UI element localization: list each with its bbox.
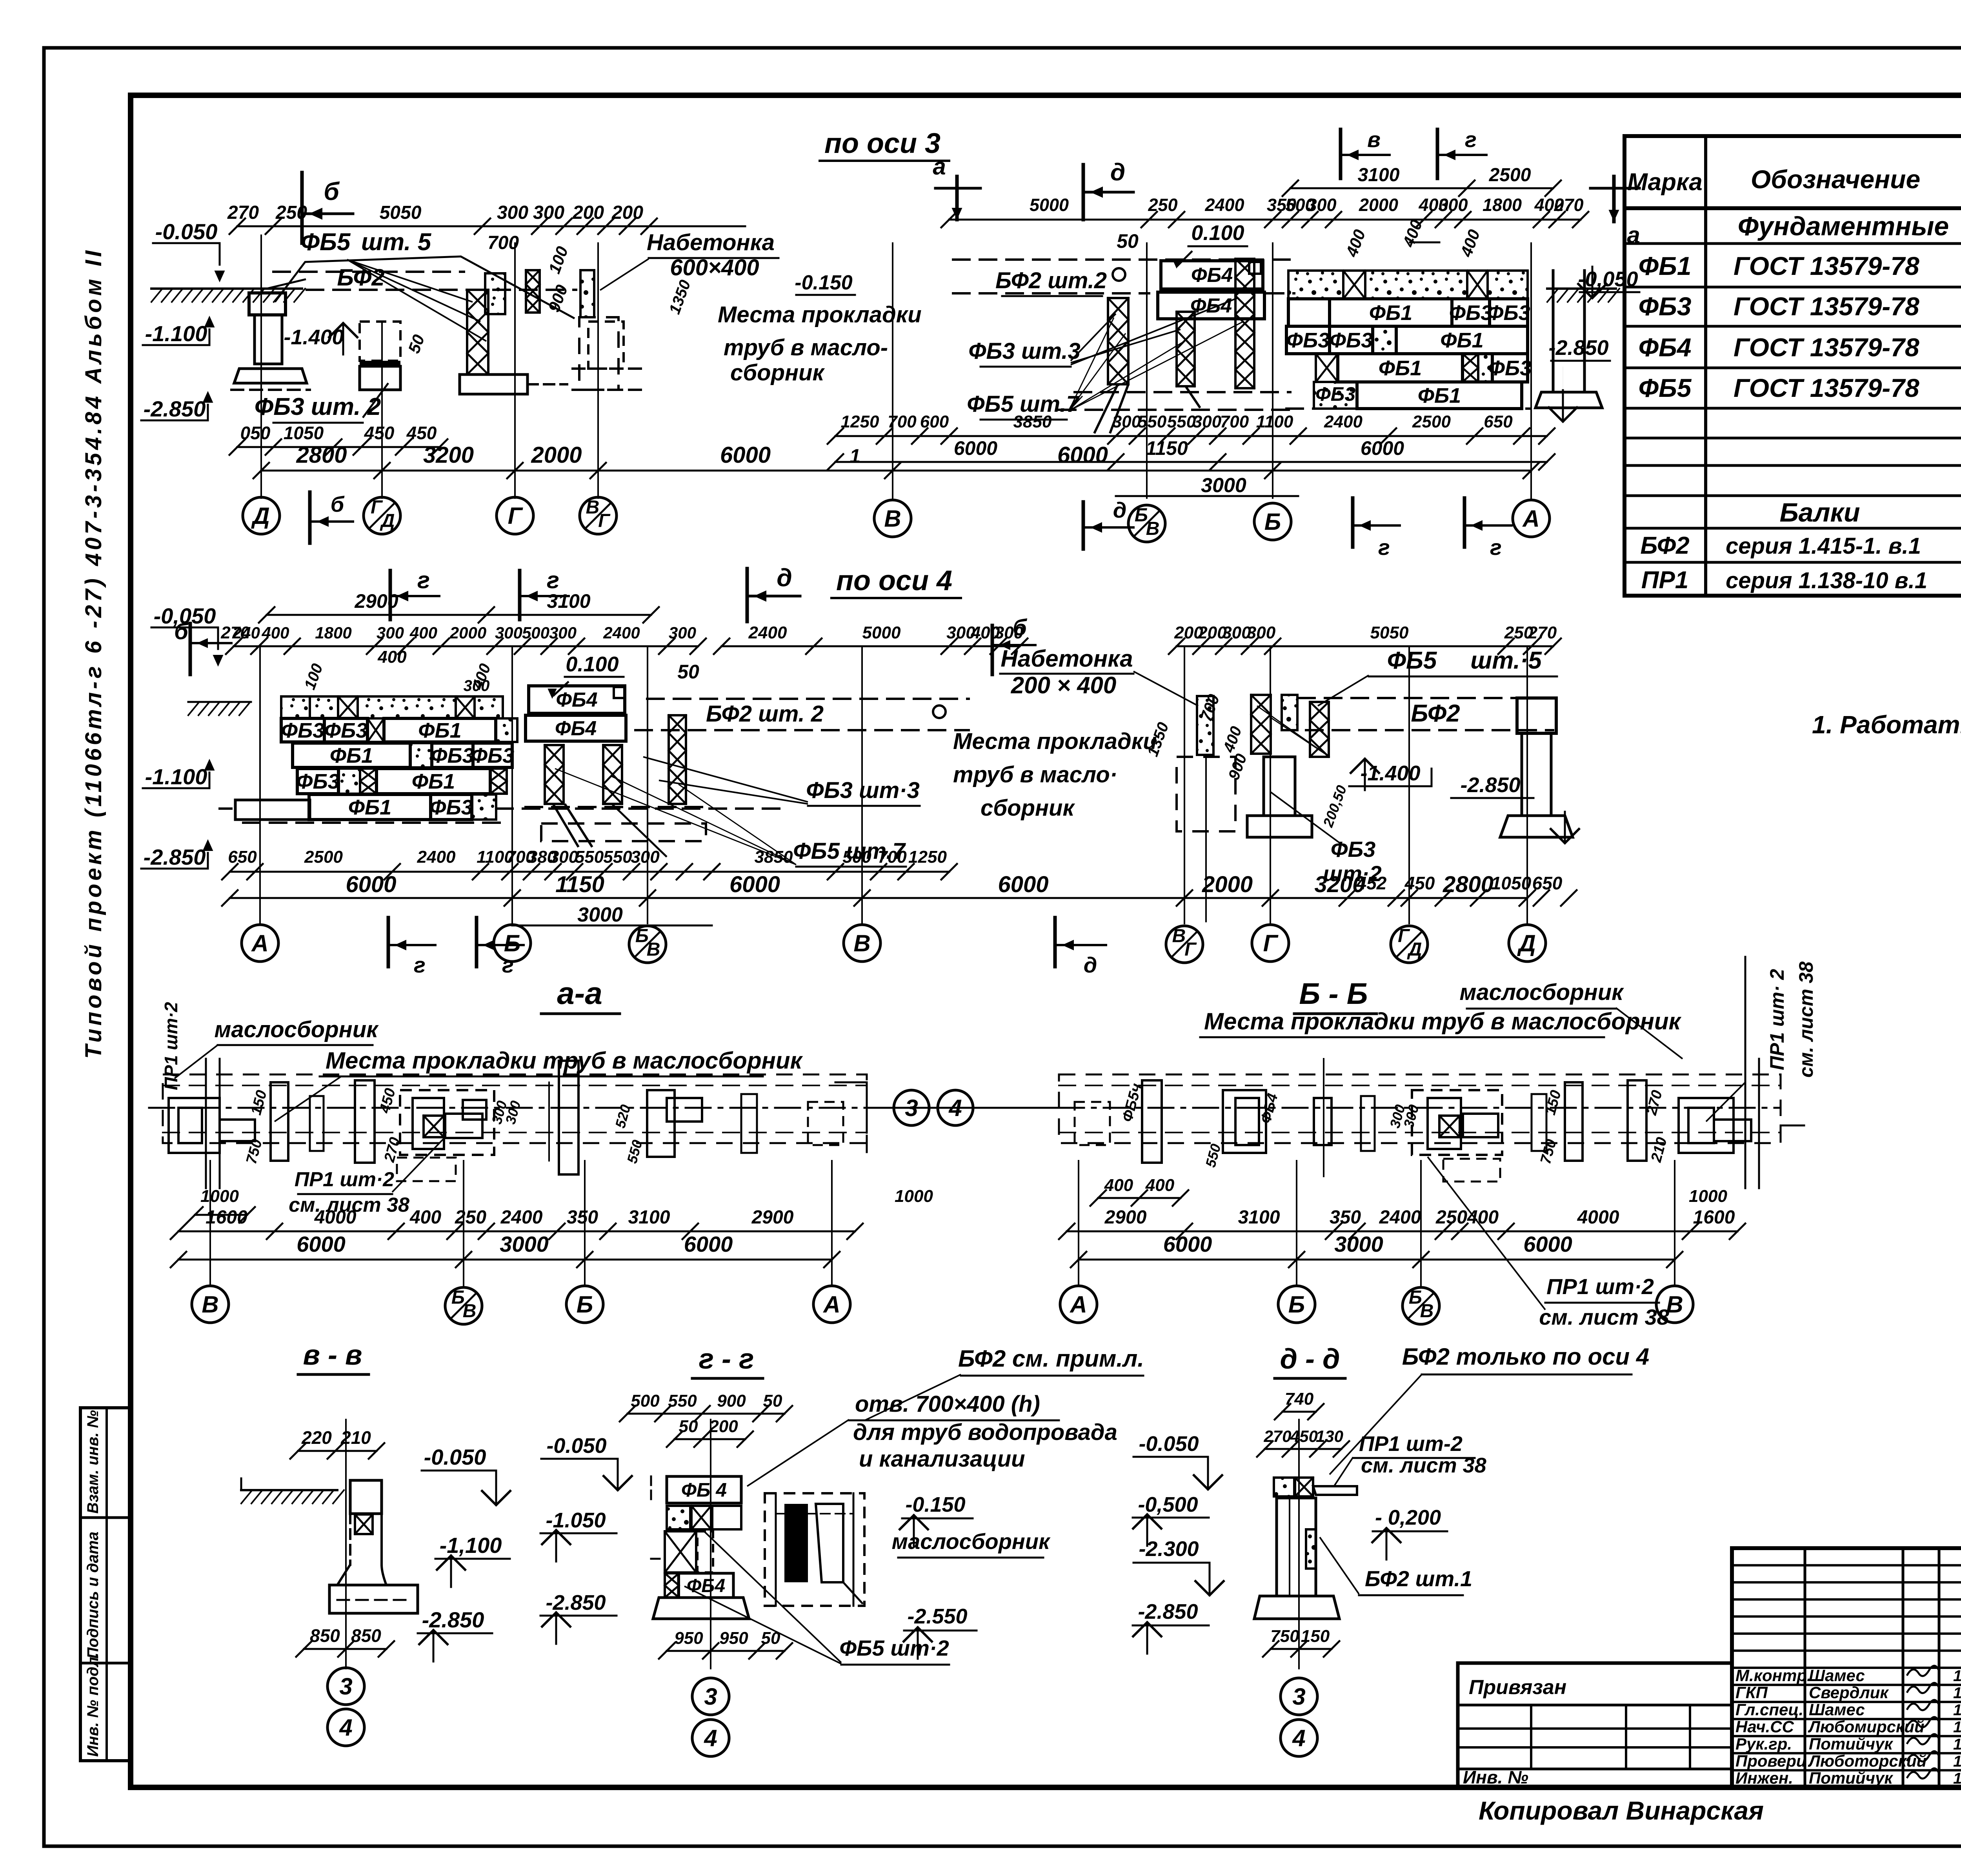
svg-text:ФБ4: ФБ4 <box>555 717 597 740</box>
row1 left: roof fan lines <box>275 256 575 318</box>
svg-text:6000: 6000 <box>1163 1232 1212 1256</box>
svg-text:ПР1 шт-2: ПР1 шт-2 <box>1359 1432 1463 1456</box>
svg-text:300: 300 <box>1193 412 1222 431</box>
svg-text:г - г: г - г <box>699 1343 754 1375</box>
svg-text:-1.400: -1.400 <box>284 325 344 349</box>
svg-text:50: 50 <box>761 1629 780 1648</box>
svg-text:-2.850: -2.850 <box>1138 1600 1198 1623</box>
title block: signature table <box>1732 1548 1961 1787</box>
row2 left base plate <box>235 800 310 820</box>
row1 left: -1.400 block <box>360 322 400 361</box>
svg-text:В: В <box>1172 925 1186 946</box>
B-B strip4 <box>1628 1080 1646 1161</box>
a-a dim chain 1 <box>178 1231 855 1232</box>
svg-text:БФ2 шт. 2: БФ2 шт. 2 <box>706 701 824 727</box>
svg-text:труб в масло-: труб в масло- <box>724 335 888 360</box>
svg-text:А: А <box>251 930 268 956</box>
svg-text:Привязан: Привязан <box>1469 1676 1566 1699</box>
svg-text:450: 450 <box>1290 1427 1318 1445</box>
svg-text:маслосборник: маслосборник <box>892 1529 1051 1554</box>
svg-text:3: 3 <box>1292 1683 1305 1710</box>
svg-text:6000: 6000 <box>297 1232 346 1256</box>
row1 main chain <box>261 470 1531 472</box>
row2 marker b right <box>991 625 994 674</box>
svg-text:В: В <box>853 930 870 956</box>
svg-text:3000: 3000 <box>1334 1232 1383 1256</box>
svg-text:3: 3 <box>339 1673 352 1700</box>
B-B left end bracket <box>1075 1102 1110 1145</box>
svg-text:4000: 4000 <box>1577 1207 1619 1228</box>
row1 left: ground hatch <box>151 287 302 290</box>
svg-text:3100: 3100 <box>1358 165 1400 185</box>
row1 left: mid dims <box>237 446 440 448</box>
svg-text:д - д: д - д <box>1280 1343 1340 1375</box>
B-B center cluster <box>1412 1090 1502 1155</box>
svg-text:БФ2 только по оси 4: БФ2 только по оси 4 <box>1402 1343 1649 1370</box>
svg-text:-0,500: -0,500 <box>1138 1493 1198 1516</box>
axes circles 3 and 4 mid <box>867 1107 1059 1109</box>
svg-text:Инв. №: Инв. № <box>1463 1767 1528 1787</box>
row1 axis circles middle <box>874 500 911 537</box>
svg-text:2000: 2000 <box>1202 872 1253 897</box>
B-B mid strips <box>1314 1098 1332 1145</box>
svg-text:2400: 2400 <box>1204 195 1244 215</box>
svg-text:ФБ 4: ФБ 4 <box>681 1479 727 1501</box>
svg-text:б: б <box>1013 615 1028 640</box>
row1 markers g bottom <box>1351 498 1355 547</box>
svg-text:г: г <box>547 567 559 593</box>
svg-text:ФБ3: ФБ3 <box>1330 329 1373 352</box>
svg-text:Набетонка: Набетонка <box>647 230 775 255</box>
svg-text:маслосборник: маслосборник <box>1459 980 1624 1005</box>
svg-text:и канализации: и канализации <box>859 1446 1025 1472</box>
svg-text:Г: Г <box>1184 939 1197 960</box>
svg-text:Потийчук: Потийчук <box>1809 1769 1893 1787</box>
svg-text:Г: Г <box>598 511 611 531</box>
row2 right: x pier + pedestal <box>1251 695 1271 754</box>
svg-text:ФБ1: ФБ1 <box>1418 384 1461 407</box>
svg-text:ФБ1: ФБ1 <box>330 744 373 767</box>
svg-text:3200: 3200 <box>1314 872 1365 897</box>
svg-text:950: 950 <box>719 1629 748 1648</box>
svg-text:-2.550: -2.550 <box>907 1605 967 1628</box>
svg-text:Б: Б <box>1288 1291 1305 1318</box>
B-B axis circles <box>1078 1161 1079 1286</box>
svg-text:ФБ3: ФБ3 <box>1315 383 1355 405</box>
svg-text:6000: 6000 <box>1361 437 1404 459</box>
svg-text:300: 300 <box>631 847 660 867</box>
a-a strip3 tall <box>559 1061 578 1174</box>
svg-text:по оси 3: по оси 3 <box>824 128 940 159</box>
svg-text:550: 550 <box>1138 412 1167 431</box>
row1 left: stipple + x piers near G <box>485 273 505 314</box>
row2 marker b left <box>189 624 192 674</box>
svg-text:ФБ1: ФБ1 <box>412 770 455 793</box>
svg-text:550: 550 <box>603 847 632 867</box>
svg-text:3000: 3000 <box>577 903 623 926</box>
svg-text:ГОСТ 13579-78: ГОСТ 13579-78 <box>1734 373 1919 402</box>
svg-text:-0.050: -0.050 <box>546 1434 606 1458</box>
svg-text:маслосборник: маслосборник <box>214 1017 379 1042</box>
svg-text:ФБ3 шт.3: ФБ3 шт.3 <box>968 338 1080 364</box>
svg-text:Г: Г <box>1263 930 1279 956</box>
svg-text:сборник: сборник <box>980 795 1075 821</box>
svg-text:270: 270 <box>1554 195 1583 215</box>
row1 middle: x piers <box>1108 298 1128 384</box>
row1 right: block stack <box>1288 271 1343 299</box>
svg-text:д: д <box>1110 159 1125 186</box>
svg-text:4000: 4000 <box>314 1207 357 1228</box>
B-B dim chain 1 <box>1067 1231 1737 1232</box>
svg-text:2500: 2500 <box>1412 412 1451 431</box>
title block: left extension (Привязан / Инв №) <box>1458 1663 1732 1787</box>
svg-text:А: А <box>1522 505 1539 532</box>
svg-text:50: 50 <box>763 1391 782 1411</box>
svg-text:350: 350 <box>567 1207 598 1228</box>
svg-text:ПР1: ПР1 <box>1641 567 1688 594</box>
svg-text:5000: 5000 <box>862 623 901 642</box>
svg-text:400: 400 <box>1145 1176 1175 1195</box>
svg-text:250: 250 <box>275 202 307 223</box>
svg-text:50: 50 <box>1117 230 1139 252</box>
svg-text:Б - Б: Б - Б <box>1299 977 1368 1011</box>
B-B band outline <box>1059 1074 1781 1143</box>
svg-text:450: 450 <box>1404 873 1435 893</box>
svg-text:6000: 6000 <box>346 872 396 897</box>
B-B strip1 <box>1142 1080 1162 1163</box>
svg-text:14.10: 14.10 <box>1953 1667 1961 1685</box>
svg-text:д: д <box>1113 498 1127 522</box>
a-a right end <box>835 1082 867 1083</box>
svg-text:3850: 3850 <box>1013 412 1052 431</box>
row2 axis circles <box>242 925 278 962</box>
svg-text:г: г <box>414 953 426 977</box>
svg-text:Обозначение: Обозначение <box>1751 165 1920 194</box>
row1 marker b bottom <box>308 492 312 543</box>
svg-text:Набетонка: Набетонка <box>1001 645 1133 672</box>
svg-text:550: 550 <box>668 1391 697 1411</box>
svg-text:Места прокладки: Места прокладки <box>953 729 1157 754</box>
svg-text:Подпись и дата: Подпись и дата <box>84 1532 102 1659</box>
svg-text:300: 300 <box>533 202 564 223</box>
svg-text:2400: 2400 <box>603 624 640 642</box>
row1 right: dashed base line <box>1286 407 1530 410</box>
g-g block stack <box>650 1476 652 1502</box>
svg-text:ФБ3: ФБ3 <box>471 744 514 767</box>
svg-text:270: 270 <box>1263 1427 1291 1445</box>
svg-text:ФБ5: ФБ5 <box>1639 373 1692 402</box>
svg-text:850: 850 <box>351 1625 381 1646</box>
svg-text:2800: 2800 <box>296 442 347 468</box>
svg-text:-1.050: -1.050 <box>546 1509 606 1532</box>
svg-text:Рук.гр.: Рук.гр. <box>1735 1734 1792 1753</box>
svg-text:3100: 3100 <box>628 1207 670 1228</box>
svg-text:1100: 1100 <box>1256 412 1293 431</box>
a-a dim chain 2 <box>178 1259 832 1261</box>
svg-text:250: 250 <box>1435 1207 1467 1228</box>
row2 base plates dashed <box>526 806 706 808</box>
svg-text:БФ2 см. прим.л.: БФ2 см. прим.л. <box>958 1345 1144 1372</box>
svg-text:Марка: Марка <box>1627 169 1702 196</box>
svg-text:1050: 1050 <box>284 423 324 443</box>
row2 right: stipple strip + dashed block <box>1197 696 1213 755</box>
specification table <box>1624 136 1961 596</box>
svg-text:Шамес: Шамес <box>1809 1700 1865 1719</box>
v-v axis vertical <box>345 1420 347 1669</box>
svg-text:ФБ3: ФБ3 <box>324 719 367 742</box>
svg-text:БФ2 шт.2: БФ2 шт.2 <box>995 268 1107 293</box>
v-v dims bottom <box>304 1648 386 1650</box>
svg-text:2000: 2000 <box>449 624 486 642</box>
svg-text:3: 3 <box>704 1683 717 1710</box>
svg-text:ГОСТ 13579-78: ГОСТ 13579-78 <box>1734 333 1919 362</box>
svg-text:400: 400 <box>409 624 437 642</box>
svg-text:750: 750 <box>1270 1627 1299 1646</box>
svg-text:300: 300 <box>669 624 696 642</box>
svg-text:ГКП: ГКП <box>1735 1683 1768 1702</box>
svg-text:2900: 2900 <box>354 590 398 612</box>
svg-text:ФБ3: ФБ3 <box>281 719 324 742</box>
svg-text:3100: 3100 <box>547 590 590 612</box>
svg-text:ФБ3: ФБ3 <box>429 796 473 819</box>
svg-text:400: 400 <box>377 647 407 667</box>
svg-text:1000: 1000 <box>895 1187 933 1206</box>
svg-text:6000: 6000 <box>729 872 780 897</box>
svg-text:300: 300 <box>1247 623 1276 642</box>
svg-text:ГОСТ 13579-78: ГОСТ 13579-78 <box>1734 251 1919 280</box>
svg-text:2500: 2500 <box>1489 165 1531 185</box>
svg-text:г: г <box>1378 535 1390 560</box>
svg-text:серия 1.138-10 в.1: серия 1.138-10 в.1 <box>1726 568 1927 593</box>
svg-text:300: 300 <box>549 847 578 867</box>
a-a dashed sub-rect <box>397 1158 456 1181</box>
row1 middle: FB4 blocks <box>1161 261 1263 289</box>
row1 left: BF2 dashed beam <box>273 271 464 273</box>
svg-text:450: 450 <box>406 423 437 443</box>
svg-text:6000: 6000 <box>684 1232 733 1256</box>
svg-text:500: 500 <box>842 847 871 867</box>
svg-text:2400: 2400 <box>748 623 787 642</box>
svg-text:ФБ5: ФБ5 <box>1387 647 1437 674</box>
svg-text:14.10: 14.10 <box>1953 1701 1961 1719</box>
svg-text:б: б <box>331 492 345 516</box>
svg-text:3850: 3850 <box>755 847 793 867</box>
svg-text:-1.100: -1.100 <box>145 321 207 346</box>
svg-text:12.10: 12.10 <box>1953 1719 1961 1736</box>
svg-text:Провери: Провери <box>1735 1752 1806 1770</box>
svg-text:400: 400 <box>261 624 289 642</box>
svg-text:Гл.спец.: Гл.спец. <box>1735 1700 1803 1719</box>
svg-text:3000: 3000 <box>500 1232 549 1256</box>
row1 middle: top dim chain <box>949 219 1581 221</box>
svg-text:ПР1 шт·2: ПР1 шт·2 <box>161 1002 181 1090</box>
svg-text:850: 850 <box>310 1625 340 1646</box>
svg-text:Инв. № подл.: Инв. № подл. <box>84 1652 102 1757</box>
svg-text:2500: 2500 <box>304 847 343 867</box>
row2 markers top g g d <box>389 571 392 620</box>
row2 left block stack <box>281 696 338 718</box>
row2 axis verticals <box>259 647 261 923</box>
svg-text:Д: Д <box>1407 939 1422 960</box>
svg-text:2000: 2000 <box>531 442 582 468</box>
svg-text:650: 650 <box>1484 412 1513 431</box>
svg-text:300: 300 <box>1112 412 1141 431</box>
svg-text:450: 450 <box>364 423 395 443</box>
B-B extra strips <box>1361 1096 1375 1151</box>
a-a strip2 <box>355 1080 375 1163</box>
svg-text:серия 1.415-1. в.1: серия 1.415-1. в.1 <box>1726 533 1921 559</box>
svg-text:2900: 2900 <box>1104 1207 1147 1228</box>
svg-text:Типовой проект (11066тл-г 6 -2: Типовой проект (11066тл-г 6 -27) 407-3-3… <box>81 247 106 1059</box>
svg-text:ФБ5 шт·2: ФБ5 шт·2 <box>839 1636 949 1660</box>
svg-text:200: 200 <box>611 202 643 223</box>
row2 top dim chains <box>267 614 651 616</box>
row1 left cluster: axis lines <box>260 235 262 498</box>
svg-text:-0,050: -0,050 <box>154 604 216 628</box>
d-d dims top <box>1282 1411 1316 1413</box>
svg-text:700: 700 <box>1220 412 1249 431</box>
svg-text:400: 400 <box>409 1207 441 1228</box>
svg-text:Копировал Винарская: Копировал Винарская <box>1479 1796 1764 1825</box>
row1 middle: marker d top <box>1082 165 1085 220</box>
svg-text:-2.850: -2.850 <box>144 845 206 869</box>
svg-text:А: А <box>1069 1291 1087 1318</box>
svg-text:200 × 400: 200 × 400 <box>1011 672 1117 698</box>
svg-text:ФБ4: ФБ4 <box>556 689 597 711</box>
svg-text:300: 300 <box>1438 195 1468 215</box>
svg-text:700: 700 <box>888 412 917 431</box>
svg-text:5050: 5050 <box>1370 623 1409 642</box>
row1 left: pedestal D <box>249 293 286 315</box>
svg-text:550: 550 <box>1167 412 1196 431</box>
svg-text:1050: 1050 <box>1491 873 1532 893</box>
svg-text:0.100: 0.100 <box>1191 221 1244 245</box>
svg-text:ФБ4: ФБ4 <box>687 1576 725 1596</box>
svg-text:210: 210 <box>340 1427 371 1448</box>
svg-text:3200: 3200 <box>423 442 474 468</box>
d-d column <box>1274 1478 1294 1496</box>
svg-text:ФБ3: ФБ3 <box>1449 301 1492 325</box>
svg-text:-2.300: -2.300 <box>1139 1537 1199 1561</box>
svg-text:1800: 1800 <box>315 624 351 642</box>
svg-text:Д: Д <box>251 503 269 529</box>
svg-text:500: 500 <box>631 1391 660 1411</box>
svg-text:300: 300 <box>464 677 490 694</box>
row2 bottom dim chains <box>230 871 712 873</box>
svg-text:150: 150 <box>1301 1627 1330 1646</box>
svg-text:Люботорский: Люботорский <box>1808 1752 1926 1770</box>
row1 markers v g top <box>1339 129 1343 178</box>
g-g axis vertical <box>710 1420 711 1669</box>
row1 middle: pier legs <box>1094 384 1118 433</box>
svg-text:50: 50 <box>679 1417 698 1436</box>
svg-text:700: 700 <box>488 233 519 253</box>
svg-text:1250: 1250 <box>908 847 947 867</box>
row1 middle: axis verticals <box>892 243 893 498</box>
svg-text:270: 270 <box>220 623 250 642</box>
svg-text:Шамес: Шамес <box>1809 1666 1865 1685</box>
svg-text:300: 300 <box>549 624 577 642</box>
svg-text:сборник: сборник <box>730 360 825 385</box>
row1 middle: marker a left <box>935 187 980 190</box>
svg-text:1150: 1150 <box>1146 437 1188 459</box>
svg-text:3: 3 <box>905 1095 918 1121</box>
svg-text:-0.050: -0.050 <box>155 219 218 244</box>
d-d axis circles <box>1281 1678 1317 1715</box>
row1 left: stipple strip right <box>580 270 594 317</box>
svg-text:5000: 5000 <box>1030 195 1069 215</box>
svg-text:400: 400 <box>1104 1176 1133 1195</box>
svg-text:Д: Д <box>1517 930 1535 956</box>
a-a extra strips <box>741 1094 757 1153</box>
svg-text:ПР1 шт·2: ПР1 шт·2 <box>1546 1274 1654 1299</box>
row1 section marker b <box>300 173 304 243</box>
svg-text:В: В <box>1146 518 1160 539</box>
svg-text:-2.850: -2.850 <box>1548 336 1608 360</box>
svg-text:в: в <box>1367 127 1381 152</box>
svg-text:ФБ5: ФБ5 <box>301 229 351 256</box>
svg-text:350: 350 <box>1330 1207 1361 1228</box>
a-a band outline <box>163 1074 867 1143</box>
g-g dims top <box>628 1413 784 1415</box>
svg-text:труб в масло·: труб в масло· <box>953 762 1117 787</box>
svg-text:1. Работать совместно с л: 1. Работать совместно с листом 22. <box>1812 711 1961 739</box>
svg-text:250: 250 <box>455 1207 486 1228</box>
svg-text:900: 900 <box>717 1391 746 1411</box>
svg-text:ФБ1: ФБ1 <box>418 719 461 742</box>
svg-text:2400: 2400 <box>417 847 456 867</box>
svg-text:300: 300 <box>495 624 522 642</box>
d-d axis vertical <box>1298 1420 1300 1669</box>
svg-text:В: В <box>586 497 600 518</box>
svg-text:М.контр.: М.контр. <box>1735 1666 1812 1685</box>
svg-text:-0,050: -0,050 <box>1578 267 1638 291</box>
svg-text:Д: Д <box>380 511 395 531</box>
B-B 400 dims <box>1098 1197 1181 1199</box>
row1 middle: lower dim chain <box>835 435 1547 437</box>
svg-text:-2.850: -2.850 <box>1460 773 1520 797</box>
svg-text:600: 600 <box>920 412 949 431</box>
B-B dim chain 2 <box>1079 1259 1675 1261</box>
svg-text:БФ2 шт.1: БФ2 шт.1 <box>1365 1566 1472 1591</box>
svg-text:ФБ3: ФБ3 <box>296 770 339 793</box>
svg-text:Б: Б <box>577 1291 593 1318</box>
svg-text:650: 650 <box>1532 873 1563 893</box>
svg-text:400: 400 <box>1467 1207 1499 1228</box>
a-a strip4 <box>647 1090 675 1157</box>
svg-text:ФБ3: ФБ3 <box>1639 292 1692 321</box>
svg-text:а: а <box>1627 222 1640 248</box>
svg-text:ФБ3: ФБ3 <box>1487 301 1530 325</box>
row1 left: dashed footing right <box>579 317 618 390</box>
svg-text:270: 270 <box>227 202 259 223</box>
svg-text:220: 220 <box>301 1427 332 1448</box>
svg-text:ПР1 шт· 2: ПР1 шт· 2 <box>1766 969 1788 1070</box>
svg-text:12.10: 12.10 <box>1953 1753 1961 1770</box>
svg-text:ФБ1: ФБ1 <box>1369 301 1412 325</box>
svg-text:д: д <box>777 564 792 592</box>
svg-text:ФБ1: ФБ1 <box>1440 329 1483 352</box>
svg-text:Места прокладки: Места прокладки <box>718 302 922 327</box>
svg-text:3100: 3100 <box>1238 1207 1280 1228</box>
svg-text:950: 950 <box>674 1629 703 1648</box>
row1 right: marker a right <box>1590 187 1639 190</box>
svg-text:-1.100: -1.100 <box>145 764 207 789</box>
svg-text:-0.050: -0.050 <box>1139 1432 1199 1456</box>
row1 middle: long dashed beam lines <box>953 258 1290 261</box>
v-v dims top <box>298 1450 377 1452</box>
svg-text:б: б <box>324 177 340 205</box>
